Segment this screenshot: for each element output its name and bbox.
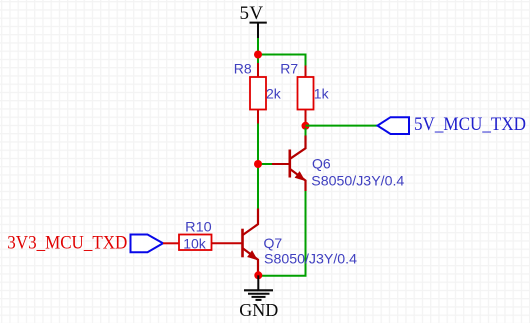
port 3V3_MCU_TXD xyxy=(7,233,163,254)
svg-text:2k: 2k xyxy=(266,86,282,102)
resistor R8 xyxy=(234,61,282,124)
svg-text:S8050/J3Y/0.4: S8050/J3Y/0.4 xyxy=(311,173,404,189)
svg-text:5V: 5V xyxy=(240,3,264,24)
wire port to R10 xyxy=(163,242,179,244)
svg-text:S8050/J3Y/0.4: S8050/J3Y/0.4 xyxy=(264,251,357,267)
svg-text:R10: R10 xyxy=(185,219,212,235)
svg-text:R7: R7 xyxy=(280,61,298,77)
transistor Q6 xyxy=(272,136,405,192)
wire node B down to Q7 collector xyxy=(257,164,259,209)
svg-text:3V3_MCU_TXD: 3V3_MCU_TXD xyxy=(7,233,127,254)
svg-text:R8: R8 xyxy=(234,61,252,77)
svg-text:GND: GND xyxy=(239,300,278,320)
wire node A to R8 top xyxy=(257,55,259,64)
resistor R10 xyxy=(179,219,212,252)
ground xyxy=(239,275,278,320)
power symbol 5V xyxy=(240,3,267,38)
wire node C to Q6 collector xyxy=(305,128,307,136)
resistor R7 xyxy=(280,61,329,127)
svg-text:10k: 10k xyxy=(183,235,207,251)
junction node A xyxy=(254,51,262,59)
wire 5V to node A xyxy=(257,38,259,51)
wire node C to port 5V_MCU_TXD xyxy=(306,125,378,127)
svg-text:Q6: Q6 xyxy=(312,156,331,172)
svg-text:5V_MCU_TXD: 5V_MCU_TXD xyxy=(414,114,526,135)
transistor Q7 xyxy=(243,209,358,272)
wire R8 bottom to node B xyxy=(257,124,259,162)
junction node B xyxy=(254,160,262,168)
svg-text:Q7: Q7 xyxy=(264,235,283,251)
junction node D xyxy=(254,271,262,279)
wire Q6 emitter to node D xyxy=(262,191,306,276)
svg-text:1k: 1k xyxy=(314,86,330,102)
junction node C xyxy=(302,122,310,130)
wire node B to Q6 base xyxy=(258,163,272,165)
port 5V_MCU_TXD xyxy=(378,114,527,135)
wire node A to R7 top xyxy=(258,55,306,67)
wire R10 to Q7 base xyxy=(212,242,243,244)
